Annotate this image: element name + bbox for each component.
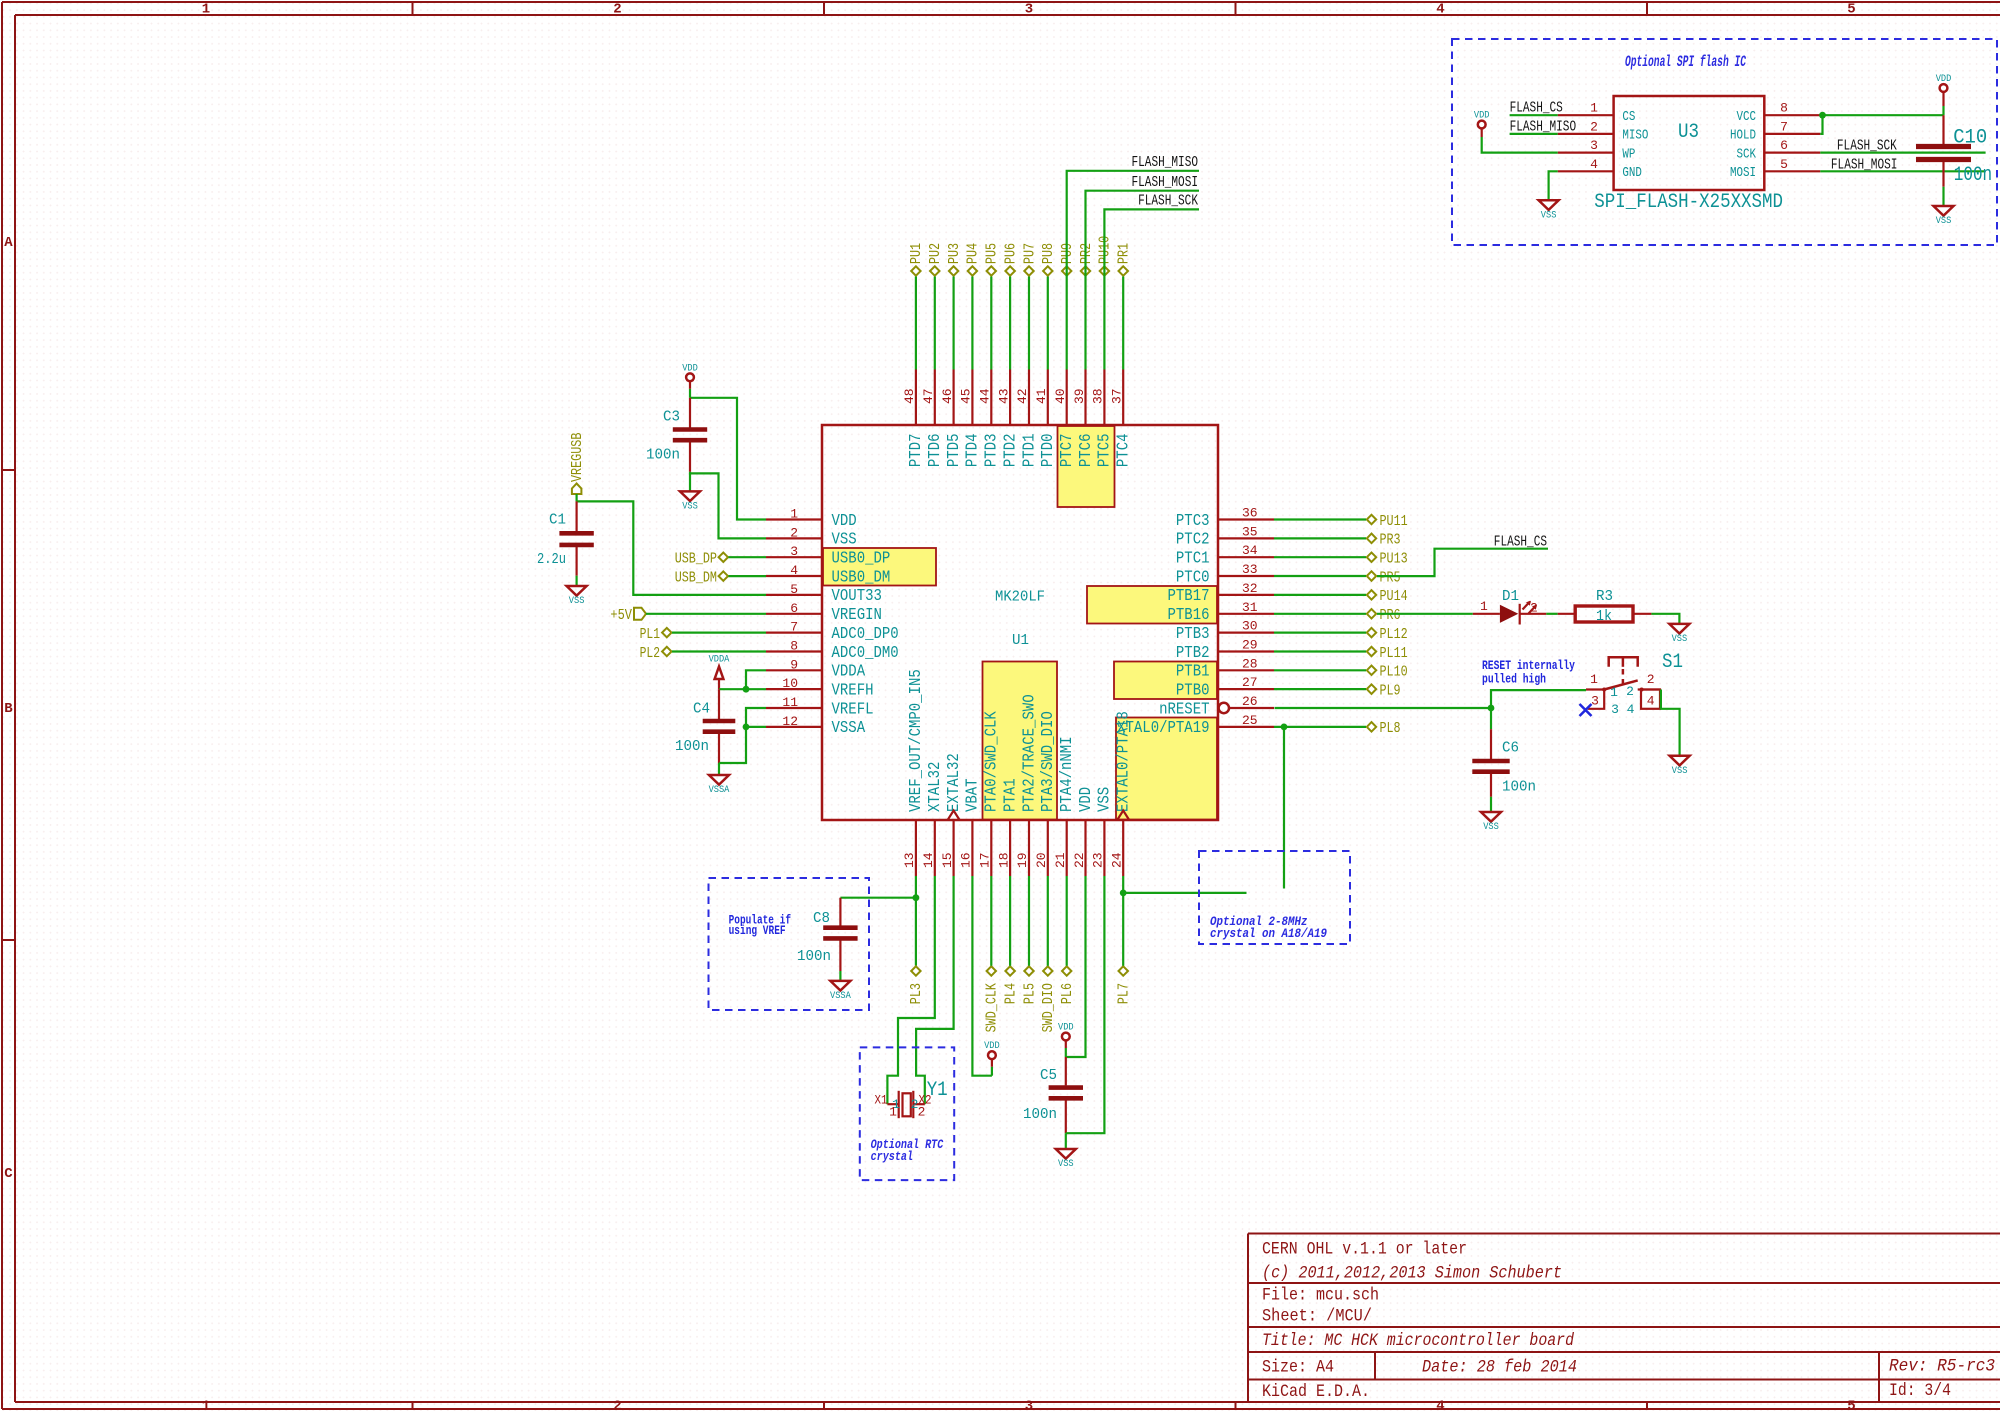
svg-text:PL10: PL10 [1380,664,1408,681]
svg-text:6: 6 [1780,138,1788,153]
wire VDD to U1 pin1 [690,398,766,520]
svg-text:43: 43 [996,388,1011,404]
U1 pin 45 (PTD4) [959,370,983,468]
svg-text:5: 5 [1847,1399,1855,1411]
svg-text:PTA3/SWD_DIO: PTA3/SWD_DIO [1039,711,1058,812]
svg-text:PU4: PU4 [965,243,982,264]
junction pin24 node [1120,890,1127,897]
svg-text:100n: 100n [675,738,709,755]
svg-text:3: 3 [1611,702,1619,717]
svg-text:FLASH_SCK: FLASH_SCK [1837,139,1897,155]
svg-text:PTC7: PTC7 [1058,434,1077,468]
svg-text:CERN OHL v.1.1 or later: CERN OHL v.1.1 or later [1262,1240,1467,1260]
U1 pin 13 (VREF_OUT/CMP0_IN5) [902,669,926,876]
svg-text:7: 7 [1780,119,1788,134]
svg-text:VDDA: VDDA [832,663,866,682]
U1 pin 35 (PTC2) [1176,524,1274,549]
svg-text:USB_DM: USB_DM [675,569,717,586]
U3 pin 1 (CS) [1558,101,1636,125]
svg-text:MOSI: MOSI [1730,166,1756,181]
global label PL2 [640,645,672,662]
global label PL3 [908,966,925,1004]
svg-text:VSS: VSS [569,595,585,607]
svg-text:GND: GND [1622,166,1642,181]
svg-text:PL3: PL3 [908,983,925,1004]
wire U1 to PR5 [1274,575,1366,577]
global label PL8 [1367,720,1401,737]
svg-text:pulled high: pulled high [1482,672,1546,687]
wire PL2 [672,650,766,652]
svg-text:ADC0_DM0: ADC0_DM0 [832,644,899,663]
global label PR3 [1367,532,1401,549]
wire S1 to ground [1661,690,1680,756]
U1 pin 23 (VSS) [1091,787,1115,876]
U1 pin 44 (PTD3) [978,370,1002,468]
ground VSS (below C3) [680,491,700,512]
svg-text:9: 9 [790,657,798,672]
U1 pin 10 (VREFH) [766,676,874,700]
svg-text:PL8: PL8 [1380,720,1401,737]
capacitor C5 [1023,1057,1083,1133]
svg-text:VSSA: VSSA [709,784,730,796]
svg-text:3: 3 [1591,694,1599,709]
note box Populate if using VREF [709,878,870,1010]
svg-text:PR5: PR5 [1380,569,1401,586]
U1 highlight EXTAL0/PTA18 XTAL0/PTA19 [1116,718,1217,820]
svg-text:4: 4 [1627,702,1635,717]
svg-text:5: 5 [1847,2,1855,18]
global label PR1 [1116,243,1133,276]
note box Optional SPI flash IC [1452,39,1997,245]
global label PU1 [908,243,925,276]
ground VSS (below C1) [567,586,587,607]
wire PU5 to U1 [990,277,992,370]
global label PU7 [1021,243,1038,276]
svg-text:VSSA: VSSA [830,990,851,1002]
U1 pin 14 (XTAL32) [921,762,945,876]
ground VSS (below S1) [1670,756,1690,777]
resistor R3 [1558,588,1652,625]
U3 pin 2 (MISO) [1558,119,1649,143]
svg-text:VSS: VSS [1058,1158,1074,1170]
wire U1 to PR3 [1274,537,1366,539]
U1 pin 21 (PTA4/nNMI) [1053,736,1077,876]
svg-text:VSS: VSS [1096,787,1115,812]
U1 pin 7 (ADC0_DP0) [766,620,899,644]
svg-text:SWD_CLK: SWD_CLK [984,983,1001,1032]
svg-text:VREGUSB: VREGUSB [569,433,586,482]
svg-text:2: 2 [613,1399,621,1411]
global label PU5 [984,243,1001,276]
global label PU6 [1002,243,1019,276]
svg-text:+5V: +5V [610,607,632,624]
power flag VDD (VBAT) [984,1040,1000,1076]
wire PU7 to U1 [1028,277,1030,370]
svg-text:FLASH_MISO: FLASH_MISO [1132,155,1199,171]
svg-text:PL9: PL9 [1380,682,1401,699]
wire U1 to PL9 [1274,688,1366,690]
switch S1 [1586,651,1683,717]
svg-text:U1: U1 [1012,632,1029,649]
U1 pin 11 (VREFL) [766,695,874,719]
svg-text:FLASH_SCK: FLASH_SCK [1138,194,1198,210]
wire pin25 stub down (optional crystal) [1283,727,1285,889]
U1 pin 12 (VSSA) [766,714,866,738]
global label PL6 [1059,966,1076,1004]
svg-text:using VREF: using VREF [729,923,786,938]
global label SWD_DIO [1040,966,1057,1032]
svg-text:2: 2 [613,2,621,18]
junction VCC node [1819,112,1826,119]
U1 pin 5 (VOUT33) [766,582,882,606]
svg-text:MK20LF: MK20LF [995,589,1045,606]
power flag VDD (C10) [1936,73,1952,115]
global label PU2 [927,243,944,276]
U1 pin 40 (PTC7) [1053,370,1077,468]
svg-text:22: 22 [1072,852,1087,868]
svg-text:100n: 100n [1023,1106,1057,1123]
svg-text:PL5: PL5 [1021,983,1038,1004]
wire pin25 to PL8 [1274,726,1366,728]
svg-text:C8: C8 [813,910,830,927]
capacitor C6 [1472,729,1536,797]
svg-text:1: 1 [202,1399,210,1411]
svg-text:VOUT33: VOUT33 [832,587,882,606]
svg-text:4: 4 [1436,2,1444,18]
svg-text:X1: X1 [875,1093,888,1108]
svg-text:VDD: VDD [1058,1022,1074,1034]
svg-text:23: 23 [1091,852,1106,868]
U1 pin 42 (PTD1) [1015,370,1039,468]
svg-text:Optional SPI flash IC: Optional SPI flash IC [1625,53,1746,71]
U1 pin 27 (PTB0) [1176,675,1274,700]
svg-text:29: 29 [1242,638,1258,653]
svg-text:VSS: VSS [682,500,698,512]
svg-text:2: 2 [1647,672,1655,687]
svg-text:FLASH_CS: FLASH_CS [1510,101,1563,117]
svg-text:13: 13 [902,852,917,868]
wire VDDA / VREFH net [719,688,766,690]
wire U1 pin to PL6 [1066,876,1068,966]
ground VSS (below C5) [1056,1149,1076,1170]
svg-text:USB0_DM: USB0_DM [832,568,891,587]
wire pin15 (EXTAL32) to Y1 [916,876,954,1104]
ground VSS (below C10) [1934,206,1954,227]
svg-text:3: 3 [790,544,798,559]
svg-text:30: 30 [1242,619,1258,634]
svg-text:WP: WP [1622,147,1635,162]
U1 pin 6 (VREGIN) [766,601,882,625]
U1 pin 8 (ADC0_DM0) [766,639,899,663]
svg-text:4: 4 [1647,694,1655,709]
wire D1 to R3 [1546,613,1557,615]
wire pin11 VREFL jog [746,708,766,727]
wire FLASH_CS net [1377,549,1548,576]
capacitor C4 [675,689,735,763]
svg-text:1: 1 [790,507,798,522]
svg-text:VREF_OUT/CMP0_IN5: VREF_OUT/CMP0_IN5 [907,669,926,812]
svg-text:Id: 3/4: Id: 3/4 [1889,1381,1951,1401]
U1 highlight PTC7-PTC5 [1058,426,1115,507]
wire PU3 to U1 [952,277,954,370]
svg-text:PL4: PL4 [1002,983,1019,1004]
wire C5 bottom to pin23 VSS [1066,876,1105,1133]
wire pin13 to PL3 [915,876,917,966]
U1 pin 18 (PTA1) [996,778,1020,876]
svg-text:VBAT: VBAT [964,778,983,812]
svg-text:37: 37 [1110,388,1125,404]
U1 pin 26 (nRESET) [1159,694,1274,719]
crystal Y1 [875,1079,948,1120]
wire MOSI net [1820,170,1985,172]
svg-text:S1: S1 [1662,651,1683,674]
svg-text:Size: A4: Size: A4 [1262,1358,1334,1378]
svg-text:PTB0: PTB0 [1176,681,1210,700]
U3 pin 3 (WP) [1558,138,1636,162]
svg-text:PTB1: PTB1 [1176,663,1210,682]
svg-text:B: B [4,701,13,717]
svg-text:41: 41 [1034,388,1049,404]
wire FLASH_MISO to U3 [1510,133,1558,135]
wire PU8 to U1 [1047,277,1049,370]
wire C10 to ground [1942,187,1944,206]
svg-text:VSS: VSS [1483,821,1499,833]
svg-text:VDD: VDD [682,362,698,374]
svg-text:PTC0: PTC0 [1176,568,1210,587]
svg-text:PTD2: PTD2 [1001,434,1020,468]
global label PL7 [1116,966,1133,1004]
svg-text:VREFL: VREFL [832,700,874,719]
wire GND to ground [1549,171,1558,200]
global label PL12 [1367,626,1408,643]
wire PU2 to U1 [934,277,936,370]
U1 pin 34 (PTC1) [1176,543,1274,568]
svg-text:nRESET: nRESET [1159,700,1209,719]
svg-text:4: 4 [790,563,798,578]
svg-text:PTD6: PTD6 [926,434,945,468]
U1 pin 15 (EXTAL32) [940,753,964,876]
svg-text:18: 18 [996,852,1011,868]
svg-text:16: 16 [959,852,974,868]
svg-text:PTD7: PTD7 [907,434,926,468]
MCU U1 MK20LF body [822,425,1218,820]
svg-text:ADC0_DP0: ADC0_DP0 [832,625,899,644]
svg-text:PL7: PL7 [1116,983,1133,1004]
svg-text:D1: D1 [1502,588,1519,605]
svg-text:Date: 28 feb 2014: Date: 28 feb 2014 [1422,1358,1577,1378]
svg-text:3: 3 [1025,1399,1033,1411]
svg-text:VSS: VSS [832,531,857,550]
svg-text:6: 6 [790,601,798,616]
svg-text:39: 39 [1072,388,1087,404]
power flag VDDA [709,654,730,690]
svg-text:PTC4: PTC4 [1115,434,1134,468]
U1 pin 32 (PTB17) [1168,581,1275,606]
svg-text:C3: C3 [663,408,680,425]
svg-text:SCK: SCK [1737,147,1757,162]
wire nRESET to S1 and C6 [1275,707,1492,709]
svg-text:100n: 100n [1954,164,1992,187]
note box Optional 2-8MHz crystal [1199,851,1350,944]
capacitor C3 [646,398,707,472]
svg-text:XTAL32: XTAL32 [926,762,945,812]
svg-text:3: 3 [1590,138,1598,153]
global label PL10 [1367,664,1408,681]
svg-text:Rev: R5-rc3: Rev: R5-rc3 [1889,1357,1995,1377]
svg-text:VSS: VSS [1936,215,1952,227]
U1 highlight PTB1/PTB0 [1114,662,1217,700]
wire U1 pin to PL5 [1028,876,1030,966]
svg-text:PTC6: PTC6 [1077,434,1096,468]
U1 pin 38 (PTC5) [1091,370,1115,468]
svg-text:2: 2 [1530,601,1538,616]
capacitor C1 [537,501,594,575]
svg-text:EXTAL32: EXTAL32 [945,753,964,812]
svg-text:VSSA: VSSA [832,719,866,738]
U1 pin 19 (PTA2/TRACE_SWO) [1015,694,1039,876]
global label PL4 [1002,966,1019,1004]
svg-text:VDD: VDD [1474,110,1490,122]
svg-text:10: 10 [782,676,798,691]
svg-text:VSS: VSS [1672,765,1688,777]
svg-text:PTA4/nNMI: PTA4/nNMI [1058,736,1077,812]
wire C3 to ground [689,473,691,491]
svg-text:USB_DP: USB_DP [675,551,717,568]
svg-text:crystal on A18/A19: crystal on A18/A19 [1210,926,1327,941]
wire USB_DP [729,556,767,558]
global label PL1 [640,626,672,643]
svg-text:35: 35 [1242,524,1258,539]
junction C8 node [913,894,920,901]
U1 pin 20 (PTA3/SWD_DIO) [1034,711,1058,876]
U1 highlight PTB17/PTB16 [1087,586,1217,624]
svg-text:PL2: PL2 [640,645,660,662]
wire C6 to ground [1490,797,1492,812]
wire U1 to PU13 [1274,556,1366,558]
wire PR1 to U1 [1122,277,1124,370]
wire FLASH_MISO net [1067,171,1199,370]
wire U1 pin to SWD_CLK [990,876,992,966]
wire C5 to ground [1065,1133,1067,1149]
global label +5V [610,607,646,624]
wire pin9 VDDA jog [746,670,766,689]
wire U1 to PL12 [1274,631,1366,633]
svg-text:3: 3 [1025,2,1033,18]
wire U1 to PL10 [1274,669,1366,671]
svg-text:PR1: PR1 [1116,243,1133,264]
svg-text:PU11: PU11 [1380,513,1408,530]
wire VCC to C10/VDD [1820,114,1943,116]
wire pin24 stub right (optional crystal) [1123,892,1246,894]
svg-text:C4: C4 [693,701,710,718]
wire pin14 (XTAL32) to Y1 [887,876,934,1104]
svg-text:24: 24 [1110,852,1125,868]
svg-text:28: 28 [1242,656,1258,671]
title block [1248,1234,2000,1403]
wire FLASH_CS to U3 [1510,114,1558,116]
svg-text:CS: CS [1622,110,1635,125]
svg-text:PTB3: PTB3 [1176,625,1210,644]
svg-text:Title: MC HCK microcontroller: Title: MC HCK microcontroller board [1262,1331,1574,1351]
svg-text:C: C [4,1166,13,1182]
wire U1 pin to SWD_DIO [1047,876,1049,966]
svg-text:38: 38 [1091,388,1106,404]
U1 pin 37 (PTC4) [1110,370,1134,468]
svg-text:PU8: PU8 [1040,243,1057,264]
global label PU10 [1097,236,1114,276]
U1 pin 29 (PTB2) [1176,638,1274,663]
svg-text:PTB17: PTB17 [1168,587,1210,606]
U1 pin 43 (PTD2) [996,370,1020,468]
svg-text:2.2u: 2.2u [537,551,566,568]
svg-text:14: 14 [921,852,936,868]
svg-text:(c) 2011,2012,2013 Simon Schub: (c) 2011,2012,2013 Simon Schubert [1262,1264,1562,1284]
capacitor C8 [797,898,858,971]
ground VSS (below C6) [1481,812,1501,833]
svg-text:1k: 1k [1596,608,1612,625]
svg-text:File: mcu.sch: File: mcu.sch [1262,1285,1379,1305]
wire PL1 [672,631,766,633]
U1 pin 1 (VDD) [766,507,857,531]
wire PU6 to U1 [1009,277,1011,370]
U1 pin 41 (PTD0) [1034,370,1058,468]
svg-text:VDD: VDD [1077,787,1096,812]
svg-text:32: 32 [1242,581,1258,596]
U1 highlight USB0_DP/USB0_DM [823,548,936,586]
svg-text:PU6: PU6 [1002,243,1019,264]
svg-text:44: 44 [978,388,993,404]
U1 pin 25 (XTAL0/PTA19) [1117,713,1274,738]
global label USB_DP [675,551,728,568]
svg-text:PTC3: PTC3 [1176,512,1210,531]
svg-text:1: 1 [1590,101,1598,116]
svg-text:FLASH_MISO: FLASH_MISO [1510,119,1577,135]
svg-text:PL12: PL12 [1380,626,1408,643]
wire pin16 (VBAT) to VDD [972,876,992,1076]
svg-text:PU2: PU2 [927,243,944,264]
U1 pin 28 (PTB1) [1176,656,1274,681]
wire PU4 to U1 [971,277,973,370]
svg-text:Sheet: /MCU/: Sheet: /MCU/ [1262,1306,1372,1326]
svg-text:4: 4 [1590,157,1598,172]
svg-text:PTC2: PTC2 [1176,531,1210,550]
svg-text:PTD5: PTD5 [945,434,964,468]
U1 pin 16 (VBAT) [959,778,983,876]
svg-text:PU13: PU13 [1380,551,1408,568]
IC U3 body [1594,96,1783,214]
svg-text:12: 12 [782,714,798,729]
U1 pin 3 (USB0_DP) [766,544,890,568]
svg-text:PU7: PU7 [1021,243,1038,264]
svg-text:MISO: MISO [1622,129,1648,144]
svg-text:FLASH_MOSI: FLASH_MOSI [1831,157,1898,173]
wire U1 to PU11 [1274,518,1366,520]
svg-text:PTD1: PTD1 [1020,434,1039,468]
svg-text:VDD: VDD [1936,73,1952,85]
ground VSSA (below C8) [830,981,851,1002]
global label PU4 [965,243,982,276]
svg-text:27: 27 [1242,675,1258,690]
svg-text:1: 1 [1610,685,1618,700]
svg-text:2: 2 [918,1105,926,1120]
svg-text:VREGIN: VREGIN [832,606,882,625]
ground VSS (right of R3) [1669,624,1689,645]
wire VCC to HOLD [1820,115,1822,134]
svg-text:40: 40 [1053,388,1068,404]
U3 pin 5 (MOSI) [1730,157,1820,181]
svg-text:31: 31 [1242,600,1258,615]
svg-text:PR3: PR3 [1380,532,1401,549]
